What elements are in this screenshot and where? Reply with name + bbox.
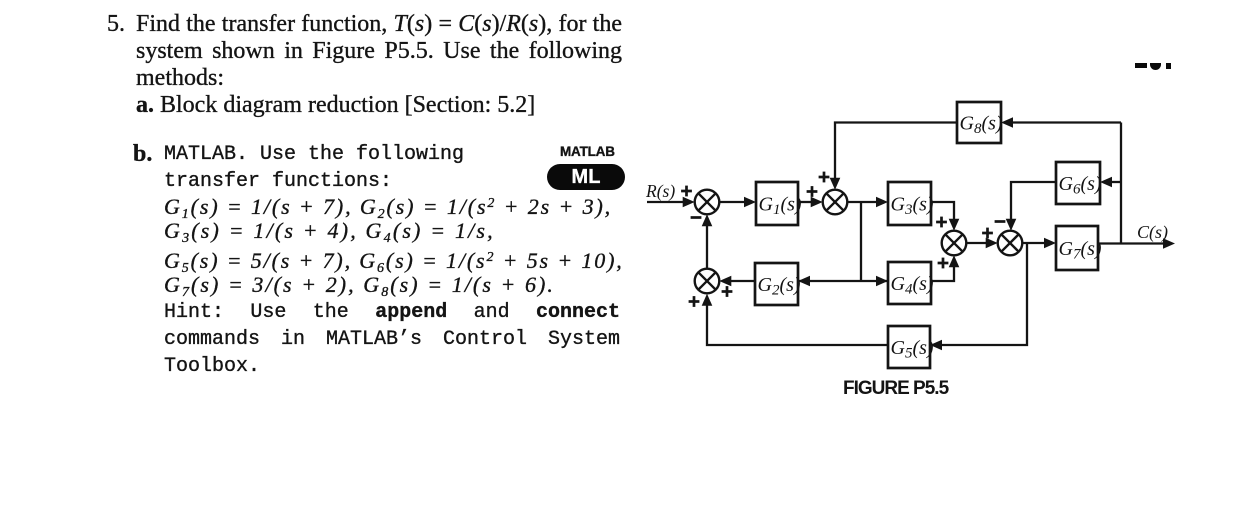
arrowhead into G3 (876, 197, 888, 208)
wire G5 output to S5 bottom (707, 299, 888, 345)
wire S4 to G7 (1022, 242, 1046, 244)
item b line 1 (164, 141, 464, 168)
arrowhead into G4 left edge (876, 276, 888, 287)
svg-text:G6(s): G6(s) (1059, 173, 1102, 198)
arrowhead into S1 (683, 197, 695, 208)
sign plus at S2 top input (819, 172, 830, 183)
arrowhead into S3 top (949, 219, 960, 231)
svg-text:C(s): C(s) (1137, 222, 1168, 243)
block G1 (756, 182, 798, 225)
arrowhead into S4 top (1006, 219, 1017, 231)
figure caption (843, 378, 950, 399)
sign plus at S4 left input (982, 228, 993, 239)
svg-text:G1(s): G1(s) (759, 194, 802, 219)
arrowhead into S3 bottom (949, 255, 960, 267)
arrowhead into S2 (811, 197, 823, 208)
sign minus at S1 lower input (691, 216, 702, 219)
wire between G2 and G4 (798, 280, 888, 282)
arrowhead into S1 bottom (702, 214, 713, 226)
equation line 2 (164, 218, 495, 244)
arrowhead into S2 top (830, 178, 841, 190)
wire branch from S2 output down to G2/G4 line (860, 202, 862, 281)
wire G6 output to S4 top (1011, 182, 1056, 223)
wire G7 output to C(s) (1098, 242, 1165, 244)
sign plus at S5 right input (722, 286, 733, 297)
svg-text:G3(s): G3(s) (891, 194, 934, 219)
ML badge (547, 164, 625, 190)
node R(s) input label (645, 181, 675, 201)
arrowhead into G6 right edge (1100, 177, 1112, 188)
summing junction S1 (695, 190, 720, 215)
block G8 (957, 102, 1001, 143)
MATLAB label (560, 144, 615, 159)
item a (136, 92, 535, 119)
arrowhead into G5 right edge (930, 340, 942, 351)
sign plus at S3 bottom input (938, 258, 949, 269)
wire R(s) input to summing junction S1 (647, 201, 684, 203)
node C(s) output label (1137, 222, 1168, 243)
svg-text:FIGURE P5.5: FIGURE P5.5 (843, 378, 950, 399)
wire stub from feedback line to G6 input (1109, 181, 1121, 183)
wire S1 to G1 (719, 201, 746, 203)
wire S3 to S4 (966, 242, 988, 244)
block G5 (888, 326, 930, 368)
arrowhead into S5 bottom (702, 294, 713, 306)
item 5 line 3 (136, 65, 224, 92)
item b line 2 (164, 168, 392, 195)
svg-text:G8(s): G8(s) (960, 113, 1003, 138)
sign plus at S3 top input (936, 217, 947, 228)
wire branch from S4 output down to G5 input (940, 243, 1027, 345)
arrowhead into G8 right edge (1001, 117, 1013, 128)
wire G4 output to S3 bottom (931, 262, 954, 281)
wire top feedback to G8 input (1010, 121, 1121, 123)
svg-text:G7(s): G7(s) (1059, 238, 1102, 263)
svg-text:G2(s): G2(s) (758, 274, 801, 299)
sign plus at S2 left input (807, 186, 818, 197)
equation line 3 (164, 248, 624, 274)
sign plus at S1 input (681, 186, 692, 197)
svg-text:R(s): R(s) (645, 181, 675, 201)
equation line 1 (164, 194, 612, 220)
svg-text:G4(s): G4(s) (891, 273, 934, 298)
wire G2 output to S5 (728, 280, 755, 282)
summing junction S4 (998, 231, 1023, 256)
page-edge artifact marks top right (1135, 63, 1147, 68)
summing junction S2 (823, 190, 848, 215)
wire feedback branch up from C(s) line (1120, 123, 1122, 244)
wire G1 to S2 (798, 201, 814, 203)
arrowhead into S4 (986, 238, 998, 249)
hint paragraph (164, 299, 620, 380)
item 5 line 2 (136, 38, 622, 65)
arrowhead C(s) output (1163, 238, 1175, 249)
arrowhead into S5 right (719, 276, 731, 287)
sign minus at S4 top input (995, 220, 1006, 223)
summing junction S5 (695, 269, 720, 294)
wire S5 output up to S1 (706, 221, 708, 269)
wire G8 output feedback to S2 (835, 123, 957, 182)
arrowhead into G7 (1044, 238, 1056, 249)
arrowhead into G1 (744, 197, 756, 208)
item 5 line 1 (136, 11, 622, 38)
block G7 (1056, 226, 1098, 270)
block G2 (755, 263, 798, 305)
summing junction S3 (942, 231, 967, 256)
block G6 (1056, 162, 1100, 204)
block G4 (888, 262, 931, 304)
sign plus at S5 bottom input (689, 296, 700, 307)
arrowhead into G2 right edge (798, 276, 810, 287)
block G3 (888, 182, 931, 225)
svg-text:G5(s): G5(s) (891, 337, 934, 362)
equation line 4 (164, 272, 555, 298)
wire G3 output to S3 top (931, 202, 954, 223)
wire S2 to G3 (847, 201, 878, 203)
